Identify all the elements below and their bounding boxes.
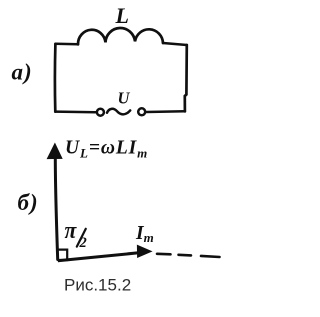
wire right vertical side of loop — [185, 45, 187, 111]
wire top left segment — [55, 42, 78, 45]
phasor Im axis shaft — [58, 253, 139, 261]
phasor UL arrowhead — [47, 144, 62, 159]
AC source tilde — [107, 109, 130, 115]
wire left vertical side of loop — [54, 44, 57, 112]
svg-text:а): а) — [12, 60, 33, 85]
wire top right segment — [163, 43, 187, 45]
wire bottom right segment — [147, 110, 185, 113]
svg-text:б): б) — [18, 190, 39, 215]
svg-text:Рис.15.2: Рис.15.2 — [64, 276, 131, 295]
dashed continuation of Im axis — [157, 253, 171, 256]
source terminal left circle — [97, 109, 104, 116]
inductor L (three humps) — [78, 28, 163, 44]
svg-text:U: U — [118, 88, 131, 107]
dash 3 — [201, 256, 220, 257]
source terminal right circle — [138, 108, 145, 115]
dash 2 — [179, 254, 192, 257]
svg-text:UL=ωLIm: UL=ωLIm — [65, 137, 148, 160]
wire bottom left segment — [55, 110, 95, 113]
svg-text:2: 2 — [79, 235, 87, 251]
svg-text:π: π — [65, 218, 78, 244]
right angle square at origin — [59, 250, 68, 260]
phasor Im arrowhead — [137, 245, 151, 257]
svg-text:L: L — [115, 3, 129, 28]
phasor UL axis shaft — [55, 158, 57, 260]
svg-text:Im: Im — [135, 223, 154, 245]
pi/2 slash — [77, 229, 86, 247]
